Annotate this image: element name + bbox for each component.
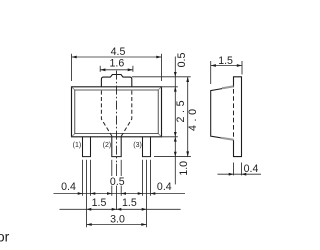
body inner outline front view: [75, 90, 158, 134]
chained dimension line 0.5 / 2.5 / 1.0: [174, 57, 176, 185]
svg-text:(2): (2): [103, 142, 112, 149]
dimension text 0.5 center: [109, 176, 125, 186]
double arrows at body bottom: [174, 132, 177, 142]
svg-text:1.6: 1.6: [110, 57, 125, 69]
side view: body profile: [211, 87, 234, 140]
dimension 3.0 line: [87, 224, 147, 226]
dimension 4.0 line (overall height): [187, 77, 189, 157]
hidden tab outline right (dashed): [121, 91, 132, 137]
lead 1: [83, 137, 91, 157]
dimension 1.6 extension lines: [100, 66, 133, 72]
svg-text:1.0: 1.0: [178, 161, 190, 176]
svg-text:(1): (1): [73, 142, 82, 149]
vertical centerline: [116, 71, 118, 163]
lead 3: [143, 137, 151, 157]
dimension 1.6 line: [100, 69, 133, 71]
svg-text:0.4: 0.4: [157, 181, 172, 193]
svg-text:1.5: 1.5: [122, 197, 137, 209]
dimension 4.5 line: [72, 56, 162, 58]
side view: body bottom shading: [221, 138, 234, 140]
svg-text:(3): (3): [133, 142, 142, 149]
svg-text:1.5: 1.5: [92, 197, 107, 209]
lead 2 extension lines: [112, 160, 121, 210]
svg-text:0.4: 0.4: [244, 163, 259, 175]
dimension line 0.4/0.5/0.4 row: [54, 193, 186, 195]
arrow down at lead tip: [174, 152, 177, 157]
side view: body top shading: [222, 86, 234, 88]
extension line tab top right: [132, 76, 191, 78]
dimension text 1.6: [109, 58, 125, 66]
body corner chamfers: [72, 87, 162, 137]
side view: dimension 0.4 line: [218, 173, 262, 175]
svg-text:4.0: 4.0: [187, 105, 199, 131]
hidden tab outline left (dashed): [101, 91, 112, 137]
side view: dimension 1.5 line: [211, 65, 242, 67]
svg-text:0.4: 0.4: [61, 181, 76, 193]
side view: tab hidden edge (dashed): [233, 89, 235, 139]
side view: tab plate: [234, 77, 242, 157]
svg-text:3.0: 3.0: [110, 213, 125, 225]
lead 1 extension lines: [83, 160, 91, 228]
svg-text:1.5: 1.5: [218, 55, 233, 67]
body outline front view: [72, 87, 162, 137]
dimension 4.5 extension lines: [72, 54, 162, 81]
lead 3 extension lines: [143, 160, 151, 228]
side view: dimension 0.4 extension lines: [234, 163, 242, 176]
extension line lead tip right: [154, 156, 191, 158]
dimension line 1.5/1.5 row: [60, 208, 181, 210]
svg-text:2.5: 2.5: [175, 97, 187, 123]
svg-text:or: or: [0, 229, 10, 245]
svg-text:0.5: 0.5: [176, 53, 188, 68]
extension line body bottom right: [162, 136, 178, 138]
svg-text:0.5: 0.5: [110, 176, 125, 188]
mounting tab bump on top: [101, 75, 131, 87]
lead 2: [112, 137, 121, 157]
side view: dimension 1.5 extension lines: [211, 61, 242, 84]
arrow down at tab top: [174, 72, 177, 77]
svg-text:4.5: 4.5: [111, 46, 126, 58]
arrow up at body top: [174, 87, 177, 92]
extension line body top right: [162, 86, 178, 88]
